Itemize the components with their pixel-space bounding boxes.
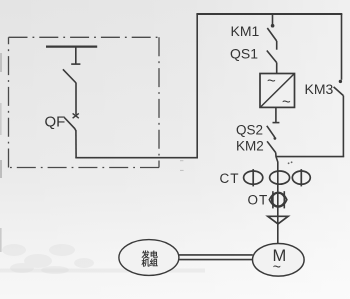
node (KM3 fixed contact dot)	[339, 80, 342, 83]
disconnector QS2 fixed-contact tick	[273, 122, 280, 124]
transformer OT symbol	[269, 191, 287, 208]
svg-text:OT: OT	[248, 192, 269, 207]
dashed enclosure box (utility grid boundary)	[9, 37, 160, 167]
contactor KM1 blade	[267, 28, 276, 41]
converter U1 diagonal	[260, 74, 294, 107]
disconnector fixed-contact tick	[71, 63, 80, 65]
current transformer CT phase B	[270, 171, 290, 184]
wire (right bypass riser lower)	[342, 96, 344, 157]
disconnector blade (incoming switch)	[63, 69, 76, 83]
svg-text:KM1: KM1	[231, 23, 260, 39]
svg-text:QF: QF	[45, 114, 66, 131]
shaft coupling (double line)	[179, 255, 253, 260]
current transformer CT phase A	[244, 169, 263, 186]
wire (main feeder down to motor)	[276, 153, 278, 245]
busbar	[46, 45, 97, 47]
breaker QF fixed-contact cross	[73, 113, 79, 118]
contactor KM2 blade	[267, 141, 276, 152]
wire	[276, 63, 278, 74]
svg-text:QS2: QS2	[236, 123, 263, 138]
wire	[276, 41, 278, 50]
contactor KM3 blade	[334, 87, 344, 96]
wire	[75, 130, 77, 158]
generator G (发电机组)	[119, 240, 179, 276]
motor M	[252, 243, 304, 276]
svg-text:~: ~	[273, 259, 281, 275]
svg-text:KM3: KM3	[305, 81, 334, 97]
wire (to converter cubicle)	[75, 157, 198, 159]
node (QS2 hinge dot)	[274, 137, 277, 140]
current transformer CT phase C	[292, 169, 310, 186]
wire (right bypass riser upper)	[341, 14, 343, 80]
wire (left riser)	[196, 14, 198, 158]
wire (converter output)	[275, 107, 277, 122]
wire (top bus rail)	[196, 13, 342, 15]
wire	[75, 83, 77, 115]
converter U1 box	[260, 74, 295, 108]
wire (main branch drop)	[272, 14, 274, 25]
breaker QF blade	[64, 118, 76, 131]
svg-text:~: ~	[267, 73, 276, 90]
wire (bypass return)	[277, 156, 345, 158]
svg-text:~: ~	[282, 94, 291, 111]
disconnector QS2 blade	[267, 126, 275, 137]
svg-text:CT: CT	[220, 171, 240, 186]
wire (busbar drop)	[75, 47, 77, 64]
arrester triangle	[268, 216, 288, 224]
svg-text:机组: 机组	[142, 258, 159, 268]
svg-text:KM2: KM2	[236, 139, 264, 154]
svg-text:QS1: QS1	[230, 45, 258, 61]
disconnector QS1 blade	[267, 51, 277, 63]
node (KM1 fixed contact dot)	[271, 24, 275, 28]
